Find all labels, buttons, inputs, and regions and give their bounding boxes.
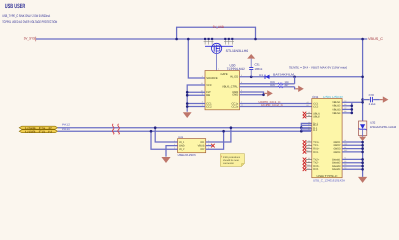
svg-text:B11: B11 — [307, 146, 310, 149]
svg-text:C78: C78 — [369, 93, 375, 97]
svg-text:B1: B1 — [344, 146, 346, 149]
svg-text:RX2-: RX2- — [313, 168, 319, 171]
svg-text:3: 3 — [174, 147, 175, 150]
svg-text:USBLC6-2SC6: USBLC6-2SC6 — [178, 153, 196, 157]
svg-text:B5: B5 — [307, 104, 309, 107]
svg-text:BAT54KFILM: BAT54KFILM — [273, 73, 295, 77]
svg-text:VBUS2: VBUS2 — [332, 105, 341, 108]
svg-text:USB_TYPE_C SINK ONLY 2.5W 5V/5: USB_TYPE_C SINK ONLY 2.5W 5V/500mA — [2, 14, 50, 18]
svg-text:VBUS: VBUS — [198, 145, 205, 148]
svg-text:2: 2 — [174, 143, 175, 146]
svg-text:1: 1 — [174, 139, 175, 142]
svg-text:B9: B9 — [344, 110, 346, 113]
svg-text:5V_USB: 5V_USB — [213, 25, 224, 29]
svg-text:5V_SYS: 5V_SYS — [24, 37, 36, 41]
svg-text:IO2: IO2 — [200, 148, 205, 151]
svg-text:A9: A9 — [344, 107, 346, 110]
svg-text:S4: S4 — [344, 167, 346, 170]
svg-text:B12: B12 — [344, 149, 347, 152]
svg-text:GND: GND — [179, 145, 185, 148]
svg-text:A3: A3 — [308, 143, 310, 146]
svg-text:GND4: GND4 — [333, 151, 341, 154]
svg-text:5: 5 — [208, 143, 209, 146]
svg-text:IO_1: IO_1 — [179, 141, 185, 144]
svg-text:4: 4 — [208, 147, 209, 150]
svg-text:CC2c: CC2c — [231, 105, 238, 108]
svg-text:S3: S3 — [344, 163, 346, 166]
svg-text:2: 2 — [218, 68, 219, 71]
svg-text:A12: A12 — [344, 143, 347, 146]
svg-text:S2: S2 — [344, 160, 346, 163]
svg-text:USB_FS_N: USB_FS_N — [25, 130, 52, 133]
svg-text:6: 6 — [208, 139, 209, 142]
svg-text:D-2: D-2 — [313, 129, 318, 132]
svg-text:ESDA25P35-1U1M: ESDA25P35-1U1M — [370, 125, 397, 129]
svg-text:B7: B7 — [308, 128, 310, 131]
svg-text:B8: B8 — [308, 114, 310, 117]
svg-text:IO_2: IO_2 — [179, 148, 185, 151]
svg-text:USB USER: USB USER — [323, 95, 344, 99]
svg-text:VCC: VCC — [206, 84, 212, 87]
svg-text:SBU2: SBU2 — [313, 115, 320, 118]
svg-text:VBUS_CTRL: VBUS_CTRL — [222, 86, 238, 89]
svg-text:connector: connector — [223, 162, 234, 165]
svg-text:B2: B2 — [308, 157, 310, 160]
svg-text:R29: R29 — [270, 84, 275, 87]
svg-text:GND: GND — [232, 94, 238, 97]
svg-text:CC2: CC2 — [206, 105, 212, 108]
svg-text:A10: A10 — [307, 167, 310, 170]
svg-text:A1: A1 — [344, 139, 346, 142]
svg-text:2.2uF: 2.2uF — [369, 102, 376, 106]
svg-text:CN1: CN1 — [312, 95, 318, 99]
svg-text:A4: A4 — [344, 100, 346, 103]
svg-text:CC2: CC2 — [313, 105, 319, 108]
svg-text:U32: U32 — [370, 121, 376, 125]
svg-text:IO1: IO1 — [200, 141, 205, 144]
svg-text:RX1-: RX1- — [313, 151, 319, 154]
svg-text:A11: A11 — [307, 164, 310, 167]
svg-text:A8: A8 — [308, 111, 310, 114]
svg-text:Shield4: Shield4 — [332, 168, 341, 171]
svg-text:IN_GD: IN_GD — [230, 76, 238, 79]
svg-text:A5: A5 — [307, 101, 309, 104]
svg-text:TCPP01 USED AS OVER VOLTAGE PR: TCPP01 USED AS OVER VOLTAGE PROTECTION — [2, 20, 57, 24]
svg-text:S1: S1 — [344, 157, 346, 160]
svg-text:A2: A2 — [308, 140, 310, 143]
svg-text:DB: DB — [206, 94, 210, 97]
svg-text:4: 4 — [202, 75, 203, 78]
svg-text:TCPP01-M12: TCPP01-M12 — [227, 67, 245, 71]
svg-text:PA11: PA11 — [62, 127, 71, 131]
svg-text:4k7: 4k7 — [284, 84, 289, 87]
svg-text:VBUS4: VBUS4 — [332, 112, 341, 115]
svg-text:SENSE = 2K4 - VBUS MAX 6V (15W: SENSE = 2K4 - VBUS MAX 6V (15W max) — [289, 66, 347, 70]
svg-text:USB USER: USB USER — [5, 3, 26, 10]
svg-text:UCPD_CC2_C: UCPD_CC2_C — [261, 103, 283, 107]
svg-text:D1: D1 — [259, 73, 263, 77]
svg-text:B3: B3 — [308, 160, 310, 163]
svg-text:A7: A7 — [308, 123, 310, 126]
svg-text:U31: U31 — [178, 136, 183, 139]
svg-text:100nF: 100nF — [255, 67, 263, 71]
svg-text:SOURCE: SOURCE — [206, 77, 218, 80]
svg-text:B10: B10 — [307, 150, 310, 153]
svg-text:STL11N3LLH6: STL11N3LLH6 — [226, 49, 249, 53]
svg-text:VBUS_C: VBUS_C — [368, 37, 383, 41]
svg-text:GATE: GATE — [221, 73, 228, 76]
svg-text:USB_C_12401610E42A: USB_C_12401610E42A — [313, 178, 345, 182]
svg-text:B4: B4 — [344, 103, 346, 106]
